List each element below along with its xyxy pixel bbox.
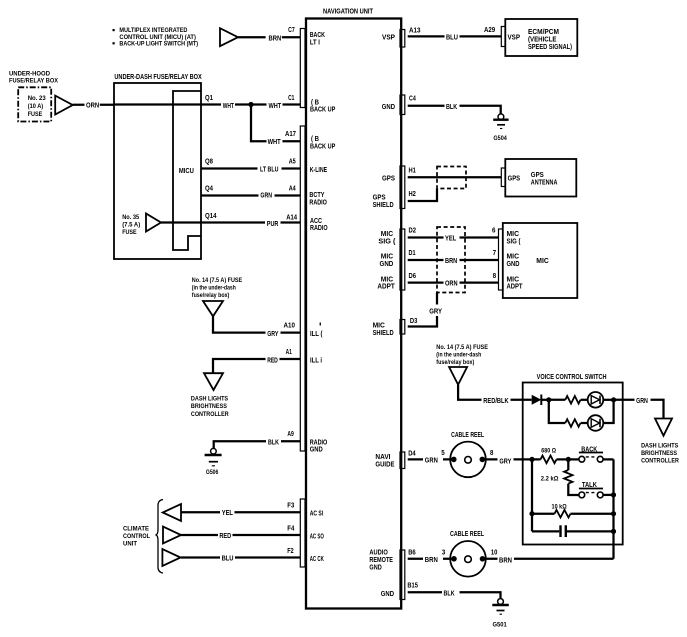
svg-text:H2: H2 bbox=[409, 189, 416, 198]
svg-text:D1: D1 bbox=[409, 248, 416, 257]
svg-text:G501: G501 bbox=[493, 622, 507, 629]
connector D4 bracket (right) bbox=[400, 452, 405, 469]
junction node 10k right bbox=[611, 511, 616, 516]
svg-text:FUSE: FUSE bbox=[28, 111, 43, 118]
svg-text:GND: GND bbox=[369, 562, 381, 571]
climate control bracket bbox=[155, 500, 163, 574]
svg-text:BLK: BLK bbox=[446, 102, 458, 111]
wire RED/BLK bbox=[458, 385, 532, 405]
MIC box bbox=[503, 223, 578, 298]
connector C4 bracket (right) bbox=[400, 95, 405, 115]
MIC pin bracket bbox=[499, 229, 503, 290]
svg-text:UNDER-HOOD: UNDER-HOOD bbox=[9, 71, 50, 78]
connector D3 bracket (right) bbox=[400, 320, 405, 335]
svg-text:SPEED SIGNAL): SPEED SIGNAL) bbox=[528, 42, 572, 51]
svg-text:K-LINE: K-LINE bbox=[310, 165, 328, 174]
svg-text:BACK-UP LIGHT SWITCH (MT): BACK-UP LIGHT SWITCH (MT) bbox=[119, 41, 198, 48]
svg-text:BRN: BRN bbox=[445, 256, 457, 265]
svg-text:AC SI: AC SI bbox=[310, 509, 324, 518]
connector F bracket (left) bbox=[300, 499, 305, 567]
svg-text:RED: RED bbox=[267, 355, 278, 364]
wire BRN reel 2 to switch bbox=[483, 548, 614, 565]
GPS shield dashed box bbox=[437, 167, 466, 189]
GPS antenna box bbox=[505, 159, 576, 197]
resistor 10 kohm bbox=[532, 503, 614, 517]
svg-text:AC SO: AC SO bbox=[310, 532, 324, 541]
junction node talk right bbox=[611, 492, 616, 497]
svg-text:No. 35: No. 35 bbox=[122, 214, 139, 221]
fuse No.14 triangle (right) bbox=[449, 367, 467, 385]
svg-text:ADPT: ADPT bbox=[377, 282, 395, 291]
svg-text:A1: A1 bbox=[286, 347, 292, 356]
pin GPS SHIELD label (nav) bbox=[373, 192, 394, 209]
under-hood fuse/relay box bbox=[9, 71, 59, 122]
junction node switch in bbox=[529, 457, 534, 462]
svg-text:BLK: BLK bbox=[268, 438, 279, 447]
svg-text:GUIDE: GUIDE bbox=[375, 460, 394, 469]
svg-text:H1: H1 bbox=[409, 165, 416, 174]
fuse No.35 triangle bbox=[146, 214, 161, 232]
svg-text:D4: D4 bbox=[408, 449, 416, 458]
climate triangle F3 (points left) bbox=[163, 504, 181, 521]
svg-text:BACK UP: BACK UP bbox=[310, 142, 335, 151]
BACK switch bbox=[568, 444, 613, 462]
svg-text:YEL: YEL bbox=[222, 508, 234, 517]
svg-text:DASH LIGHTS: DASH LIGHTS bbox=[191, 395, 229, 402]
svg-text:GRN: GRN bbox=[636, 396, 648, 405]
svg-text:GRY: GRY bbox=[499, 457, 511, 466]
cable reel 1 bbox=[450, 430, 486, 477]
svg-text:Q4: Q4 bbox=[205, 184, 213, 193]
svg-text:fuse/relay box): fuse/relay box) bbox=[192, 292, 230, 299]
svg-text:5: 5 bbox=[441, 448, 444, 457]
svg-text:GRN: GRN bbox=[425, 455, 438, 464]
svg-text:YEL: YEL bbox=[445, 234, 457, 243]
svg-text:GND: GND bbox=[310, 445, 323, 454]
under-dash fuse/relay box bbox=[114, 72, 202, 259]
svg-text:RADIO: RADIO bbox=[309, 198, 327, 207]
svg-text:ADPT: ADPT bbox=[507, 282, 523, 291]
wire PUR Q14 ACC RADIO bbox=[161, 211, 300, 228]
svg-text:RADIO: RADIO bbox=[310, 223, 328, 232]
svg-text:GND: GND bbox=[382, 102, 395, 111]
wire GPS H1 bbox=[408, 165, 502, 177]
climate triangle F2 (points right) bbox=[162, 549, 180, 566]
svg-text:UNDER-DASH FUSE/RELAY BOX: UNDER-DASH FUSE/RELAY BOX bbox=[114, 72, 202, 81]
svg-text:A5: A5 bbox=[289, 157, 296, 166]
wire ORN bbox=[73, 101, 114, 110]
wire GRN Q4 BCTY RADIO bbox=[201, 184, 300, 200]
connector B bracket (right) bbox=[400, 550, 405, 600]
ECM/PCM box bbox=[505, 19, 577, 56]
svg-text:LT I: LT I bbox=[310, 37, 320, 46]
svg-text:Q14: Q14 bbox=[205, 211, 217, 220]
junction node WHT bbox=[248, 102, 253, 107]
svg-text:BLK: BLK bbox=[444, 588, 456, 597]
svg-text:BRN: BRN bbox=[269, 33, 282, 42]
svg-text:VOICE CONTROL SWITCH: VOICE CONTROL SWITCH bbox=[537, 372, 607, 381]
wire RED A1 ILL bbox=[213, 347, 300, 373]
pin C7 label BACK LT I bbox=[310, 30, 326, 46]
wire WHT Q1 to C1 bbox=[114, 93, 300, 110]
svg-text:LT BLU: LT BLU bbox=[260, 164, 278, 173]
ground G501 bbox=[492, 599, 509, 629]
dash lights brightness controller label (left) bbox=[191, 395, 229, 418]
svg-text:BACK UP: BACK UP bbox=[310, 105, 335, 114]
wire branch down to LED2 bbox=[549, 400, 566, 423]
wire right vertical bus bbox=[612, 459, 614, 558]
connector H bracket (right) bbox=[400, 166, 405, 209]
svg-text:D6: D6 bbox=[409, 271, 417, 280]
svg-text:Q8: Q8 bbox=[205, 157, 213, 166]
diode voice feed bbox=[532, 395, 549, 406]
svg-text:SHIELD: SHIELD bbox=[373, 328, 394, 337]
svg-text:CLIMATE: CLIMATE bbox=[123, 526, 150, 533]
svg-text:BRN: BRN bbox=[425, 555, 438, 564]
ECM/PCM pin bracket bbox=[501, 27, 505, 47]
connector D mic bracket (right) bbox=[400, 229, 405, 290]
svg-text:BRIGHTNESS: BRIGHTNESS bbox=[191, 403, 227, 410]
svg-text:G504: G504 bbox=[493, 135, 507, 142]
fuse No.35 label bbox=[122, 214, 140, 236]
svg-text:A9: A9 bbox=[287, 429, 294, 438]
svg-text:MIC: MIC bbox=[536, 256, 549, 265]
wire WHT to A17 bbox=[251, 105, 300, 146]
svg-text:A4: A4 bbox=[289, 184, 296, 193]
svg-text:ANTENNA: ANTENNA bbox=[531, 178, 558, 187]
svg-text:CABLE REEL: CABLE REEL bbox=[451, 430, 484, 439]
junction node cap right bbox=[611, 529, 616, 534]
pin NAVI GUIDE label (nav) bbox=[375, 452, 394, 468]
resistor R1 bbox=[565, 396, 580, 404]
svg-text:GND: GND bbox=[507, 259, 520, 268]
wire BLK C4 to G504 bbox=[408, 94, 501, 114]
connector A bracket (left) bbox=[300, 126, 305, 451]
pin C1 label ( B BACK UP bbox=[310, 97, 335, 113]
svg-text:CONTROLLER: CONTROLLER bbox=[641, 458, 679, 465]
svg-text:C1: C1 bbox=[288, 93, 294, 102]
ground G504 bbox=[493, 114, 508, 142]
svg-text:GND: GND bbox=[380, 259, 394, 268]
MIC shield dashed box bbox=[437, 227, 465, 293]
wire R2 to LED2 bbox=[581, 422, 588, 424]
svg-text:F3: F3 bbox=[287, 500, 294, 509]
svg-text:A10: A10 bbox=[284, 320, 295, 329]
cable reel 2 bbox=[450, 529, 486, 576]
svg-text:WHT: WHT bbox=[268, 137, 282, 146]
dash lights brightness controller triangle (right) bbox=[655, 419, 672, 436]
wire YEL F3 AC SI bbox=[181, 500, 300, 517]
svg-text:GND: GND bbox=[381, 589, 394, 598]
svg-text:ORN: ORN bbox=[86, 101, 99, 110]
illumination LED1 bbox=[588, 392, 604, 408]
wire LED2 up to junction bbox=[603, 400, 613, 423]
pin MIC SIG label (nav) bbox=[378, 229, 396, 245]
svg-text:No. 14 (7.5 A) FUSE: No. 14 (7.5 A) FUSE bbox=[192, 277, 243, 284]
junction node 10k left bbox=[529, 511, 534, 516]
svg-text:A17: A17 bbox=[285, 129, 296, 138]
svg-text:6: 6 bbox=[492, 226, 496, 235]
svg-text:No. 23: No. 23 bbox=[28, 95, 46, 102]
wire RED F4 AC SO bbox=[181, 523, 300, 540]
svg-text:PUR: PUR bbox=[267, 219, 279, 228]
svg-text:(in the under-dash: (in the under-dash bbox=[192, 285, 236, 292]
pin MIC ADPT label (nav) bbox=[377, 274, 395, 290]
svg-text:AC CK: AC CK bbox=[310, 554, 325, 563]
climate control unit label bbox=[123, 526, 150, 548]
svg-text:3: 3 bbox=[442, 548, 445, 557]
svg-text:BLU: BLU bbox=[446, 33, 458, 42]
svg-text:8: 8 bbox=[493, 271, 497, 280]
svg-text:B15: B15 bbox=[407, 580, 418, 589]
resistor 680 ohm bbox=[532, 447, 568, 463]
svg-text:FUSE/RELAY BOX: FUSE/RELAY BOX bbox=[9, 78, 59, 85]
wire BRN B6 to cable reel 2 bbox=[408, 547, 454, 563]
junction node 680 out bbox=[566, 457, 571, 462]
svg-text:2.2 kΩ: 2.2 kΩ bbox=[541, 475, 559, 482]
svg-text:NAVIGATION UNIT: NAVIGATION UNIT bbox=[323, 7, 373, 16]
fuse No.23 label bbox=[28, 95, 46, 118]
svg-text:CABLE REEL: CABLE REEL bbox=[450, 529, 484, 538]
climate triangle F4 (points right) bbox=[163, 527, 181, 544]
svg-text:SIG (: SIG ( bbox=[378, 237, 396, 246]
svg-text:CONTROL: CONTROL bbox=[123, 533, 150, 540]
svg-text:10: 10 bbox=[491, 548, 498, 557]
wire R1 to LED1 bbox=[581, 399, 588, 401]
wire GRY shield to D3 bbox=[408, 293, 442, 327]
svg-text:680 Ω: 680 Ω bbox=[541, 447, 556, 454]
fuse No.14 triangle (left) bbox=[203, 301, 223, 316]
svg-text:Q1: Q1 bbox=[205, 93, 213, 102]
connector A13 bracket (right) bbox=[400, 30, 405, 48]
pin A9 label RADIO GND bbox=[310, 437, 328, 453]
svg-text:(7.5 A): (7.5 A) bbox=[122, 222, 140, 229]
svg-text:C7: C7 bbox=[288, 25, 295, 34]
wire BLK B15 to G501 bbox=[407, 580, 500, 598]
navigation unit box bbox=[306, 7, 401, 609]
svg-text:7: 7 bbox=[493, 248, 497, 257]
svg-text:G506: G506 bbox=[206, 469, 219, 476]
svg-text:A13: A13 bbox=[409, 25, 421, 34]
svg-text:D3: D3 bbox=[410, 316, 418, 325]
note multiplex integrated control unit bbox=[113, 27, 199, 47]
svg-text:WHT: WHT bbox=[269, 101, 282, 110]
svg-text:SHIELD: SHIELD bbox=[373, 200, 394, 209]
svg-text:ILL (: ILL ( bbox=[310, 329, 323, 338]
junction node LED out bbox=[611, 397, 616, 402]
svg-text:RED/BLK: RED/BLK bbox=[483, 396, 509, 405]
connector triangle to back-up light circuit bbox=[220, 28, 238, 46]
wire BRN C7 bbox=[238, 25, 300, 43]
svg-text:UNIT: UNIT bbox=[123, 541, 137, 548]
svg-text:F2: F2 bbox=[287, 546, 293, 555]
wire GRY reel to switch bbox=[482, 448, 532, 465]
svg-text:VSP: VSP bbox=[382, 33, 395, 42]
wire YEL D2 mic sig bbox=[408, 226, 499, 243]
wire ORN D6 mic adpt bbox=[408, 271, 499, 288]
svg-text:No. 14 (7.5 A) FUSE: No. 14 (7.5 A) FUSE bbox=[436, 344, 488, 351]
svg-text:(in the under-dash: (in the under-dash bbox=[436, 352, 481, 359]
svg-text:GPS: GPS bbox=[382, 173, 395, 182]
wire GRY A10 ILL bbox=[213, 316, 300, 338]
ground G506 bbox=[205, 448, 222, 476]
pin AUDIO REMOTE GND label (nav) bbox=[369, 548, 393, 572]
GPS antenna pin bracket bbox=[501, 168, 505, 187]
MICU block bbox=[173, 91, 201, 250]
dash lights brightness controller triangle (left) bbox=[204, 373, 223, 390]
pin A17 label ( B BACK UP bbox=[310, 134, 335, 150]
svg-text:VSP: VSP bbox=[508, 33, 521, 42]
wire GPS shield H2 bbox=[408, 189, 437, 202]
wire LT BLU Q8 K-LINE bbox=[201, 157, 300, 174]
wire BLU A13 to ECM bbox=[408, 25, 502, 42]
svg-text:F4: F4 bbox=[287, 523, 294, 532]
wire LED1 to junction bbox=[603, 399, 613, 401]
wire left vertical bus bbox=[531, 459, 533, 531]
wire BRN D1 mic gnd bbox=[408, 248, 499, 265]
svg-text:8: 8 bbox=[490, 448, 493, 457]
svg-text:GRY: GRY bbox=[429, 307, 442, 316]
svg-text:BRIGHTNESS: BRIGHTNESS bbox=[641, 450, 677, 457]
svg-text:BRN: BRN bbox=[499, 556, 512, 565]
wire BLU F2 AC CK bbox=[181, 546, 301, 563]
svg-text:B6: B6 bbox=[408, 547, 416, 556]
svg-text:A29: A29 bbox=[484, 25, 495, 34]
svg-text:SIG (: SIG ( bbox=[507, 237, 521, 246]
pin MIC GND label (nav) bbox=[380, 252, 394, 268]
pin A14 label ACC RADIO bbox=[310, 216, 328, 232]
TALK switch bbox=[579, 480, 614, 498]
svg-text:WHT: WHT bbox=[223, 101, 235, 110]
wire to illumination resistor R1 bbox=[549, 399, 566, 401]
pin D3 label MIC SHIELD (nav) bbox=[373, 321, 394, 337]
connector C bracket (left) bbox=[300, 29, 305, 108]
capacitor bbox=[532, 525, 614, 537]
pin A4 label BCTY RADIO bbox=[309, 190, 327, 206]
svg-text:A14: A14 bbox=[286, 212, 297, 221]
fuse No.14 label (left) bbox=[192, 277, 243, 299]
resistor 2.2 kohm bbox=[541, 459, 579, 495]
svg-text:GRY: GRY bbox=[267, 329, 278, 338]
svg-text:GRN: GRN bbox=[260, 190, 272, 199]
svg-text:CONTROLLER: CONTROLLER bbox=[191, 411, 229, 418]
svg-text:RED: RED bbox=[219, 531, 231, 540]
wire GRN D4 to cable reel bbox=[408, 448, 454, 464]
wire GRN out bbox=[614, 396, 664, 419]
connector triangle under-hood bbox=[55, 96, 72, 115]
junction node diode out bbox=[546, 397, 551, 402]
svg-text:GPS: GPS bbox=[508, 173, 521, 182]
voice control switch box bbox=[523, 372, 623, 545]
illumination LED2 bbox=[588, 415, 604, 431]
svg-text:C4: C4 bbox=[409, 94, 416, 103]
fuse No.14 label (right) bbox=[436, 344, 488, 366]
svg-text:ILL i: ILL i bbox=[310, 355, 322, 364]
svg-text:(10 A): (10 A) bbox=[28, 103, 44, 110]
svg-text:fuse/relay box): fuse/relay box) bbox=[436, 359, 474, 366]
wire BLK A9 RADIO GND bbox=[214, 429, 300, 448]
resistor R2 bbox=[565, 419, 580, 427]
svg-text:MICU: MICU bbox=[179, 166, 194, 175]
svg-text:D2: D2 bbox=[409, 226, 417, 235]
dash lights brightness controller label (right) bbox=[641, 442, 679, 464]
svg-text:BLU: BLU bbox=[222, 553, 234, 562]
svg-text:DASH LIGHTS: DASH LIGHTS bbox=[641, 442, 679, 449]
svg-text:ORN: ORN bbox=[445, 279, 458, 288]
svg-text:FUSE: FUSE bbox=[122, 229, 137, 236]
